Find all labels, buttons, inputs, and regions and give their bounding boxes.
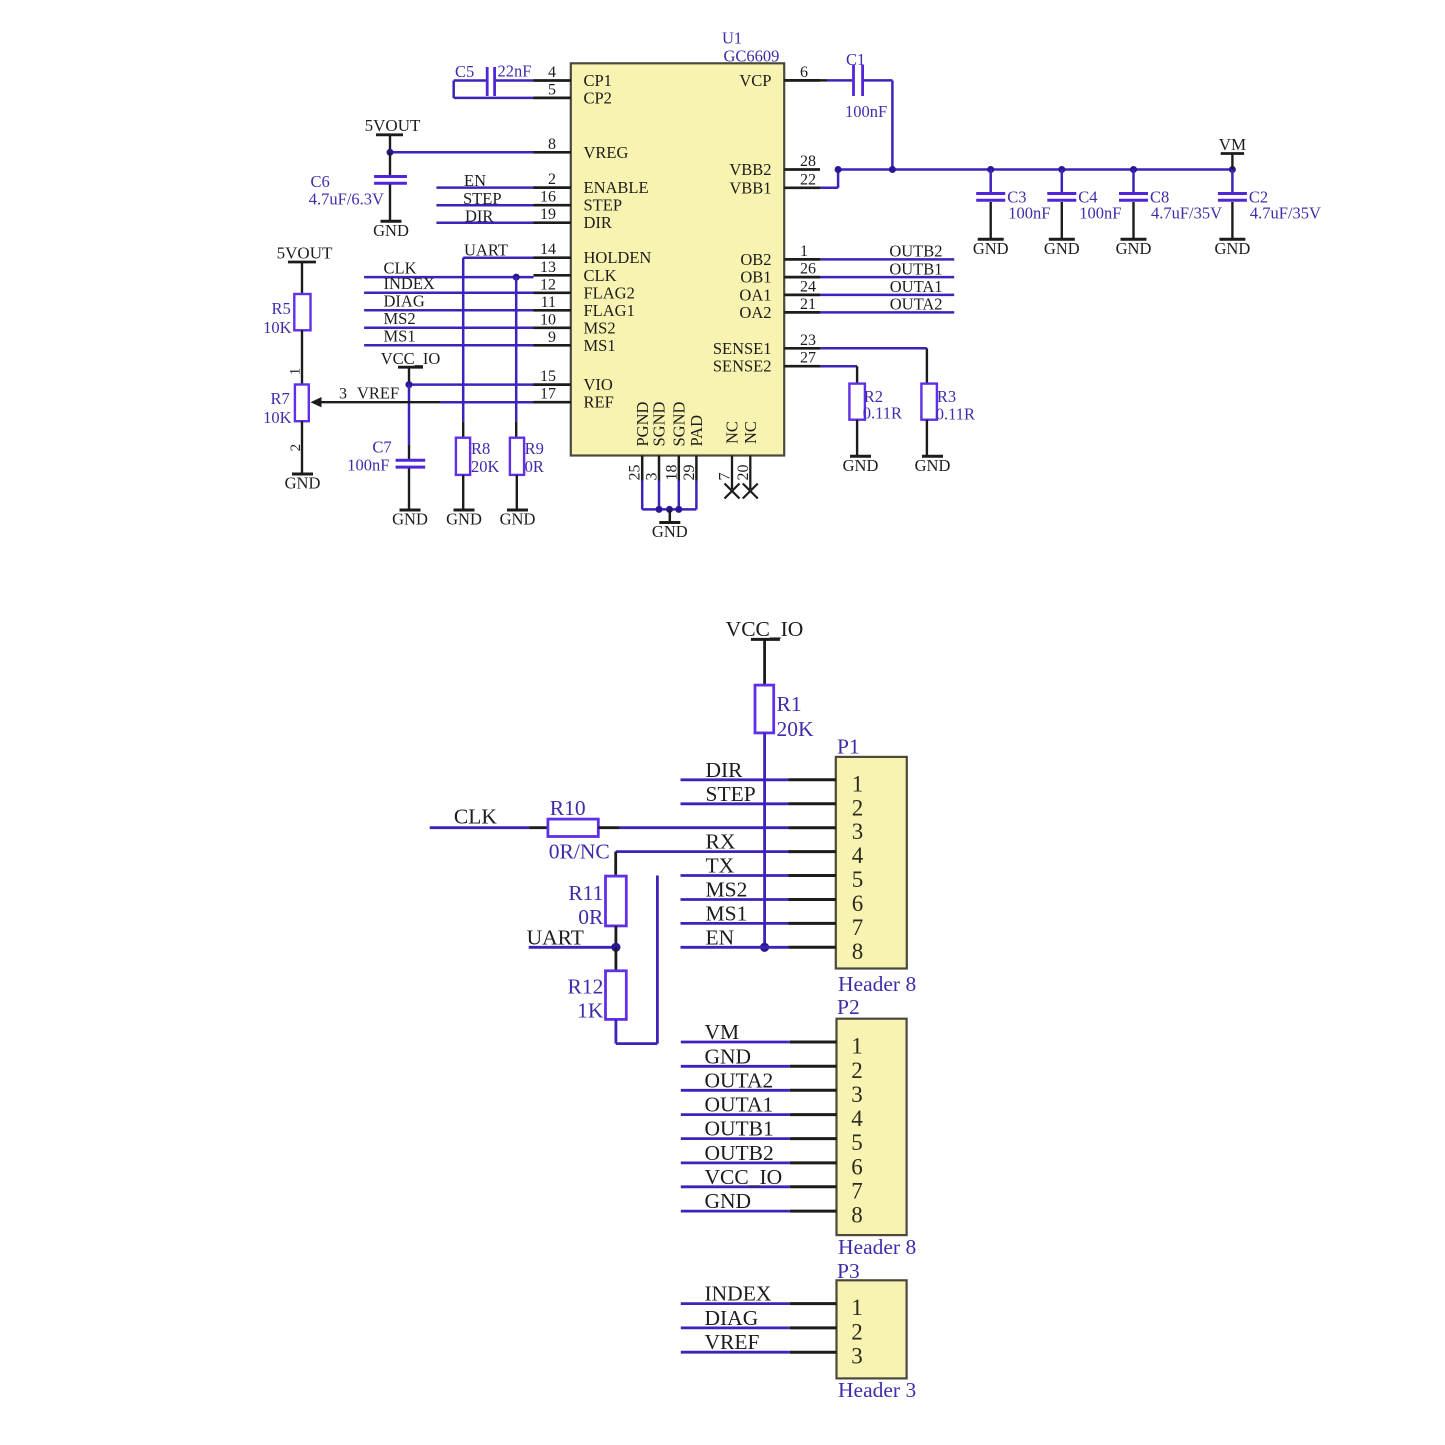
svg-text:5: 5 bbox=[851, 1130, 863, 1155]
svg-text:7: 7 bbox=[717, 473, 734, 481]
resistor R2 bbox=[849, 384, 865, 420]
U1 pin 27 (SENSE2) bbox=[713, 350, 820, 376]
svg-text:C7: C7 bbox=[372, 438, 391, 457]
capacitor C3 bbox=[976, 170, 1005, 240]
svg-text:STEP: STEP bbox=[584, 196, 623, 215]
svg-text:OUTA1: OUTA1 bbox=[705, 1093, 774, 1117]
svg-text:17: 17 bbox=[540, 386, 556, 403]
svg-text:29: 29 bbox=[681, 465, 698, 481]
resistor R1 bbox=[755, 685, 774, 733]
R7 pin 2 label bbox=[288, 444, 304, 452]
P1 reference label bbox=[837, 735, 860, 759]
R2 value label 0.11R bbox=[863, 387, 902, 423]
junction dot R1/EN bbox=[760, 943, 769, 952]
R12 value label 1K bbox=[568, 975, 604, 1023]
wire VBB rail bbox=[838, 168, 1232, 171]
svg-text:4.7uF/35V: 4.7uF/35V bbox=[1151, 204, 1222, 223]
wire CLK net bbox=[364, 259, 533, 278]
P1 pin 4 wire RX net bbox=[681, 830, 864, 869]
svg-text:16: 16 bbox=[540, 189, 556, 206]
svg-text:CP1: CP1 bbox=[584, 71, 612, 90]
svg-text:18: 18 bbox=[663, 465, 680, 481]
U1 pin 9 (MS1) bbox=[534, 329, 616, 355]
svg-text:OUTA2: OUTA2 bbox=[890, 295, 943, 314]
P3 pin 2 wire DIAG net bbox=[681, 1306, 863, 1345]
R9 value label 0R bbox=[525, 439, 544, 476]
C2 value label 4.7uF/35V bbox=[1249, 188, 1321, 223]
svg-text:OUTA2: OUTA2 bbox=[705, 1068, 774, 1092]
R10 value label 0R/NC bbox=[549, 796, 610, 864]
potentiometer R7 bbox=[295, 385, 309, 422]
svg-text:VCC_IO: VCC_IO bbox=[705, 1165, 783, 1189]
svg-text:10K: 10K bbox=[263, 408, 292, 427]
svg-text:SENSE2: SENSE2 bbox=[713, 357, 772, 376]
wire OUTB2 net bbox=[820, 242, 954, 261]
svg-text:VM: VM bbox=[1219, 135, 1246, 154]
wire VBB1 riser (pin 22) bbox=[820, 170, 838, 188]
wire R8 to ground bbox=[462, 475, 464, 510]
svg-text:MS2: MS2 bbox=[384, 309, 416, 328]
C8 value label 4.7uF/35V bbox=[1150, 188, 1222, 223]
svg-text:2: 2 bbox=[851, 1058, 863, 1083]
wire R3 to ground bbox=[926, 420, 928, 457]
svg-text:C6: C6 bbox=[311, 172, 330, 191]
wire DIAG net bbox=[364, 292, 533, 311]
junction dot rail/C4 bbox=[1058, 166, 1065, 173]
R1 value label 20K bbox=[777, 692, 815, 741]
svg-text:21: 21 bbox=[800, 296, 816, 313]
svg-text:5: 5 bbox=[548, 81, 556, 98]
R7 pin 1 label bbox=[288, 368, 304, 376]
capacitor C4 bbox=[1047, 170, 1076, 240]
U1 pin 24 (OA1) bbox=[739, 278, 820, 304]
junction dot VCC_IO/VIO bbox=[406, 381, 413, 388]
svg-text:GND: GND bbox=[1044, 239, 1080, 258]
capacitor C8 bbox=[1119, 170, 1148, 240]
U1 pin 20 (NC) no-connect bbox=[735, 421, 760, 498]
svg-text:VBB1: VBB1 bbox=[729, 178, 771, 197]
P2 pin 5 wire OUTB1 net bbox=[681, 1117, 863, 1156]
junction dot rail/C3 bbox=[987, 166, 994, 173]
wire UART net (label and vertical to R8) bbox=[463, 241, 533, 422]
U1 pin 1 (OB2) bbox=[740, 243, 820, 269]
resistor R3 bbox=[921, 384, 937, 420]
U1 pin 26 (OB1) bbox=[740, 261, 820, 287]
wire R11 to UART junction bbox=[615, 926, 618, 947]
svg-text:MS1: MS1 bbox=[384, 327, 416, 346]
svg-text:GND: GND bbox=[446, 510, 482, 529]
wire INDEX net bbox=[364, 274, 533, 293]
svg-text:23: 23 bbox=[800, 332, 816, 349]
wire STEP net bbox=[436, 189, 533, 208]
wire MS1 net bbox=[364, 327, 533, 346]
ground (U1 pad bus) bbox=[652, 509, 688, 541]
resistor R11 bbox=[606, 876, 627, 926]
svg-text:OUTB1: OUTB1 bbox=[889, 259, 942, 278]
capacitor C7 bbox=[396, 460, 426, 510]
svg-text:OA1: OA1 bbox=[739, 285, 771, 304]
svg-text:1: 1 bbox=[800, 243, 808, 260]
U1 pin 13 (CLK) bbox=[534, 259, 617, 285]
wire OUTA2 net bbox=[820, 295, 954, 314]
svg-text:VBB2: VBB2 bbox=[729, 160, 771, 179]
svg-text:R9: R9 bbox=[525, 439, 544, 458]
wire VIO net (pin 15) bbox=[409, 383, 534, 386]
U1 pin 14 (HOLDEN) bbox=[534, 241, 652, 267]
P2 pin 4 wire OUTA1 net bbox=[681, 1093, 863, 1132]
connector P3 body (Header 3) bbox=[837, 1280, 907, 1378]
svg-text:2: 2 bbox=[548, 171, 556, 188]
svg-text:NC: NC bbox=[723, 421, 742, 444]
svg-text:U1: U1 bbox=[722, 29, 742, 48]
svg-text:5: 5 bbox=[852, 867, 864, 892]
P1 pin 1 wire DIR net bbox=[681, 758, 864, 797]
svg-text:GND: GND bbox=[705, 1044, 752, 1068]
svg-text:8: 8 bbox=[852, 939, 864, 964]
svg-text:12: 12 bbox=[540, 276, 556, 293]
svg-text:7: 7 bbox=[851, 1178, 863, 1203]
P3 pin 1 wire INDEX net bbox=[681, 1282, 863, 1321]
svg-text:28: 28 bbox=[800, 153, 816, 170]
svg-text:GND: GND bbox=[973, 239, 1009, 258]
P2 Header 8 label bbox=[838, 1235, 916, 1259]
svg-text:GND: GND bbox=[705, 1189, 752, 1213]
svg-text:1: 1 bbox=[852, 771, 864, 796]
svg-text:MS1: MS1 bbox=[584, 336, 616, 355]
svg-text:VIO: VIO bbox=[584, 375, 613, 394]
wire R10 to P1 pin 3 bbox=[598, 826, 788, 829]
P2 pin 6 wire OUTB2 net bbox=[681, 1141, 863, 1180]
power symbol VM bbox=[1219, 135, 1246, 170]
svg-text:22nF: 22nF bbox=[498, 62, 532, 81]
wire MS2 net bbox=[364, 309, 533, 328]
svg-text:3: 3 bbox=[644, 473, 661, 481]
wire R9 to ground bbox=[516, 475, 518, 510]
ground (R9) bbox=[500, 510, 536, 529]
P2 pin 2 wire GND net bbox=[681, 1044, 863, 1083]
U1 pin 18 (SGND) bbox=[663, 401, 688, 480]
U1 reference designator label bbox=[722, 29, 779, 66]
svg-text:4: 4 bbox=[851, 1106, 863, 1131]
svg-text:GND: GND bbox=[392, 510, 428, 529]
svg-text:0R: 0R bbox=[525, 457, 544, 476]
svg-text:VCC_IO: VCC_IO bbox=[726, 617, 804, 641]
U1 pin 3 (SGND) bbox=[644, 401, 669, 480]
svg-text:3: 3 bbox=[852, 819, 864, 844]
svg-text:14: 14 bbox=[540, 241, 556, 258]
P2 pin 7 wire VCC_IO net bbox=[681, 1165, 863, 1204]
svg-text:9: 9 bbox=[548, 329, 556, 346]
svg-text:DIAG: DIAG bbox=[705, 1306, 759, 1330]
svg-text:R10: R10 bbox=[550, 796, 586, 820]
svg-text:VM: VM bbox=[705, 1020, 740, 1044]
svg-text:8: 8 bbox=[851, 1203, 863, 1228]
svg-text:GND: GND bbox=[1215, 239, 1251, 258]
wire SENSE2 net (pin 27 to R2) bbox=[820, 366, 857, 383]
svg-text:100nF: 100nF bbox=[347, 456, 389, 475]
U1 pin 7 (NC) no-connect bbox=[717, 421, 742, 498]
svg-text:OUTB2: OUTB2 bbox=[705, 1141, 774, 1165]
svg-text:R11: R11 bbox=[568, 881, 603, 905]
svg-text:C1: C1 bbox=[846, 50, 865, 69]
resistor R10 bbox=[548, 819, 598, 836]
wire R5 to R7 bbox=[301, 330, 303, 384]
ground (C3) bbox=[973, 239, 1009, 258]
svg-text:1K: 1K bbox=[577, 999, 604, 1023]
svg-text:OUTA1: OUTA1 bbox=[890, 277, 943, 296]
wire VREF net (R7 wiper to pin 17) bbox=[321, 384, 534, 403]
U1 pin 15 (VIO) bbox=[534, 368, 613, 394]
svg-text:8: 8 bbox=[548, 136, 556, 153]
svg-text:REF: REF bbox=[584, 393, 614, 412]
svg-text:EN: EN bbox=[706, 925, 735, 949]
ground (C7) bbox=[392, 510, 428, 529]
ground (C8) bbox=[1116, 239, 1152, 258]
wire R12 to TX net bbox=[616, 876, 658, 1044]
svg-text:27: 27 bbox=[800, 350, 816, 367]
R5 value label 10K bbox=[263, 299, 292, 337]
svg-text:0.11R: 0.11R bbox=[863, 404, 902, 423]
svg-text:13: 13 bbox=[540, 259, 556, 276]
svg-text:P2: P2 bbox=[837, 995, 860, 1019]
svg-text:6: 6 bbox=[800, 64, 808, 81]
svg-text:VCC_IO: VCC_IO bbox=[381, 349, 441, 368]
wire C1 to VBB rail bbox=[864, 80, 893, 169]
junction dot UART/R11/R12 bbox=[611, 943, 620, 952]
U1 pin 8 (VREG) bbox=[534, 136, 629, 162]
P1 pin 5 wire TX net bbox=[681, 854, 864, 893]
P2 pin 3 wire OUTA2 net bbox=[681, 1068, 863, 1107]
svg-text:DIR: DIR bbox=[706, 758, 744, 782]
svg-text:PAD: PAD bbox=[687, 415, 706, 447]
C3 value label 100nF bbox=[1007, 188, 1050, 223]
U1 pin 2 (ENABLE) bbox=[534, 171, 649, 197]
svg-text:OB1: OB1 bbox=[740, 268, 771, 287]
wire CLK net (bottom) bbox=[430, 805, 548, 829]
U1 pin 22 (VBB1) bbox=[729, 171, 820, 197]
svg-text:20: 20 bbox=[735, 465, 752, 481]
U1 pin 29 (PAD) bbox=[681, 415, 706, 481]
svg-text:CP2: CP2 bbox=[584, 88, 612, 107]
svg-text:15: 15 bbox=[540, 368, 556, 385]
wire ground bus under U1 (PGND/SGND/PAD) bbox=[642, 481, 696, 510]
svg-text:SENSE1: SENSE1 bbox=[713, 339, 772, 358]
svg-text:19: 19 bbox=[540, 206, 556, 223]
svg-text:R12: R12 bbox=[568, 975, 604, 999]
resistor R12 bbox=[606, 947, 627, 1019]
C7 value label 100nF bbox=[347, 438, 391, 475]
svg-text:GND: GND bbox=[652, 522, 688, 541]
junction dot rail/C8 bbox=[1130, 166, 1137, 173]
svg-text:26: 26 bbox=[800, 261, 816, 278]
P1 pin 3 wire CLK net stub bbox=[788, 819, 863, 844]
svg-text:VREF: VREF bbox=[705, 1330, 760, 1354]
svg-text:1: 1 bbox=[851, 1034, 863, 1059]
svg-text:GND: GND bbox=[915, 456, 951, 475]
svg-text:P3: P3 bbox=[837, 1259, 860, 1283]
svg-text:4.7uF/6.3V: 4.7uF/6.3V bbox=[309, 190, 384, 209]
C6 value label 4.7uF/6.3V bbox=[309, 172, 384, 209]
svg-text:INDEX: INDEX bbox=[705, 1282, 772, 1306]
junction dots on ground bus bbox=[656, 506, 683, 513]
svg-text:SGND: SGND bbox=[669, 401, 688, 446]
svg-text:MS1: MS1 bbox=[706, 901, 748, 925]
wire UART net (bottom) bbox=[527, 925, 616, 949]
svg-text:FLAG1: FLAG1 bbox=[584, 301, 635, 320]
svg-text:20K: 20K bbox=[777, 717, 815, 741]
svg-text:RX: RX bbox=[706, 830, 736, 854]
svg-text:100nF: 100nF bbox=[845, 102, 887, 121]
svg-text:Header 8: Header 8 bbox=[838, 972, 916, 996]
svg-text:NC: NC bbox=[741, 421, 760, 444]
connector P1 body (Header 8) bbox=[836, 757, 907, 969]
svg-text:0.11R: 0.11R bbox=[936, 405, 975, 424]
svg-text:STEP: STEP bbox=[463, 189, 502, 208]
svg-text:Header 8: Header 8 bbox=[838, 1235, 916, 1259]
power symbol VCC_IO (top schematic) bbox=[381, 349, 441, 385]
svg-text:GND: GND bbox=[843, 456, 879, 475]
junction dot VBB pin 28 bbox=[835, 166, 842, 173]
U1 pin 16 (STEP) bbox=[534, 189, 623, 215]
P2 reference label bbox=[837, 995, 860, 1019]
capacitor C2 bbox=[1218, 170, 1247, 240]
svg-text:UART: UART bbox=[527, 925, 584, 949]
U1 pin 23 (SENSE1) bbox=[713, 332, 820, 358]
ground (C4) bbox=[1044, 239, 1080, 258]
svg-text:CLK: CLK bbox=[584, 266, 617, 285]
U1 pin 21 (OA2) bbox=[739, 296, 820, 322]
svg-text:R7: R7 bbox=[271, 389, 290, 408]
svg-text:GND: GND bbox=[373, 221, 409, 240]
svg-text:R3: R3 bbox=[937, 387, 956, 406]
svg-text:10: 10 bbox=[540, 311, 556, 328]
svg-text:OUTB1: OUTB1 bbox=[705, 1117, 774, 1141]
svg-text:4: 4 bbox=[852, 843, 864, 868]
svg-text:25: 25 bbox=[627, 465, 644, 481]
P2 pin 1 wire VM net bbox=[681, 1020, 863, 1059]
svg-text:OB2: OB2 bbox=[740, 250, 771, 269]
junction dot C1/rail bbox=[889, 166, 896, 173]
capacitor C5 bbox=[487, 67, 533, 96]
wire OUTB1 net bbox=[820, 259, 954, 278]
svg-text:DIR: DIR bbox=[465, 206, 493, 225]
resistor R5 bbox=[294, 294, 310, 330]
P1 pin 2 wire STEP net bbox=[681, 782, 864, 821]
svg-text:1: 1 bbox=[288, 368, 304, 376]
svg-text:ENABLE: ENABLE bbox=[584, 178, 649, 197]
ground (C2) bbox=[1215, 239, 1251, 258]
svg-text:100nF: 100nF bbox=[1008, 204, 1050, 223]
svg-text:TX: TX bbox=[706, 854, 735, 878]
svg-text:HOLDEN: HOLDEN bbox=[584, 248, 652, 267]
svg-text:20K: 20K bbox=[471, 457, 500, 476]
power symbol VCC_IO (bottom) bbox=[726, 617, 804, 685]
power symbol 5VOUT (C6 branch) bbox=[365, 116, 421, 152]
P2 pin 8 wire GND net bbox=[681, 1189, 863, 1228]
R3 value label 0.11R bbox=[936, 387, 975, 424]
svg-text:4.7uF/35V: 4.7uF/35V bbox=[1250, 204, 1321, 223]
svg-text:7: 7 bbox=[852, 915, 864, 940]
svg-text:GND: GND bbox=[500, 510, 536, 529]
wire DIR net bbox=[436, 206, 533, 225]
svg-text:24: 24 bbox=[800, 278, 816, 295]
svg-text:SGND: SGND bbox=[650, 401, 669, 446]
U1 pin 12 (FLAG2) bbox=[534, 276, 635, 302]
potentiometer R7 wiper arrow bbox=[311, 397, 322, 407]
svg-text:VREF: VREF bbox=[357, 384, 399, 403]
svg-text:0R/NC: 0R/NC bbox=[549, 840, 610, 864]
wire CLK branch to R9 bbox=[515, 277, 518, 421]
svg-text:11: 11 bbox=[541, 294, 556, 311]
junction dot 5VOUT/VREG bbox=[387, 149, 394, 156]
power symbol 5VOUT (R5 branch) bbox=[277, 244, 333, 295]
svg-text:DIR: DIR bbox=[584, 213, 612, 232]
svg-text:CLK: CLK bbox=[454, 805, 497, 829]
svg-text:3: 3 bbox=[851, 1344, 863, 1369]
wire VCC_IO to C7 bbox=[408, 385, 411, 460]
svg-text:GND: GND bbox=[1116, 239, 1152, 258]
wire R1 to EN junction bbox=[763, 733, 766, 947]
svg-text:3: 3 bbox=[339, 386, 347, 403]
svg-text:5VOUT: 5VOUT bbox=[277, 244, 333, 263]
svg-text:GC6609: GC6609 bbox=[724, 47, 780, 66]
P1 pin 8 wire EN net bbox=[681, 925, 864, 964]
wire RX net (corner to R11) bbox=[616, 852, 681, 877]
P3 pin 3 wire VREF net bbox=[681, 1330, 863, 1369]
U1 pin 11 (FLAG1) bbox=[534, 294, 635, 320]
svg-text:VREG: VREG bbox=[584, 143, 629, 162]
wire SENSE1 net (pin 23 to R3) bbox=[820, 348, 927, 383]
capacitor C1 bbox=[854, 65, 863, 96]
wire VCP net (pin 6 to C1) bbox=[784, 79, 852, 82]
ground (R3) bbox=[915, 456, 951, 475]
svg-text:INDEX: INDEX bbox=[384, 274, 435, 293]
U1 pin 17 (REF) bbox=[534, 386, 614, 412]
U1 pin 19 (DIR) bbox=[534, 206, 612, 232]
C5 value label 22nF bbox=[455, 62, 531, 82]
svg-text:5VOUT: 5VOUT bbox=[365, 116, 421, 135]
svg-text:3: 3 bbox=[851, 1082, 863, 1107]
svg-text:1: 1 bbox=[851, 1295, 863, 1320]
C1 value label 100nF bbox=[845, 50, 887, 121]
capacitor C6 bbox=[374, 152, 407, 221]
svg-text:C5: C5 bbox=[455, 62, 474, 81]
wire EN net bbox=[436, 171, 533, 190]
junction dot CLK/R9 bbox=[513, 274, 520, 281]
ground (R2) bbox=[843, 456, 879, 475]
svg-text:EN: EN bbox=[464, 171, 486, 190]
svg-text:STEP: STEP bbox=[706, 782, 756, 806]
resistor R8 bbox=[456, 421, 470, 475]
svg-text:2: 2 bbox=[852, 795, 864, 820]
P3 reference label bbox=[837, 1259, 860, 1283]
svg-text:6: 6 bbox=[851, 1154, 863, 1179]
P3 Header 3 label bbox=[838, 1378, 916, 1402]
svg-text:100nF: 100nF bbox=[1079, 204, 1121, 223]
svg-text:10K: 10K bbox=[263, 318, 292, 337]
U1 pin 10 (MS2) bbox=[534, 311, 616, 337]
svg-text:OUTB2: OUTB2 bbox=[889, 242, 942, 261]
U1 pin 28 (VBB2) bbox=[729, 153, 820, 179]
P1 pin 6 wire MS2 net bbox=[681, 878, 864, 917]
wire VREG net (5VOUT to pin 8) bbox=[390, 151, 534, 154]
svg-text:MS2: MS2 bbox=[584, 318, 616, 337]
svg-text:OA2: OA2 bbox=[739, 303, 771, 322]
svg-text:4: 4 bbox=[548, 64, 556, 81]
svg-text:R1: R1 bbox=[777, 692, 802, 716]
ground (R7) bbox=[285, 474, 321, 493]
svg-text:22: 22 bbox=[800, 171, 816, 188]
